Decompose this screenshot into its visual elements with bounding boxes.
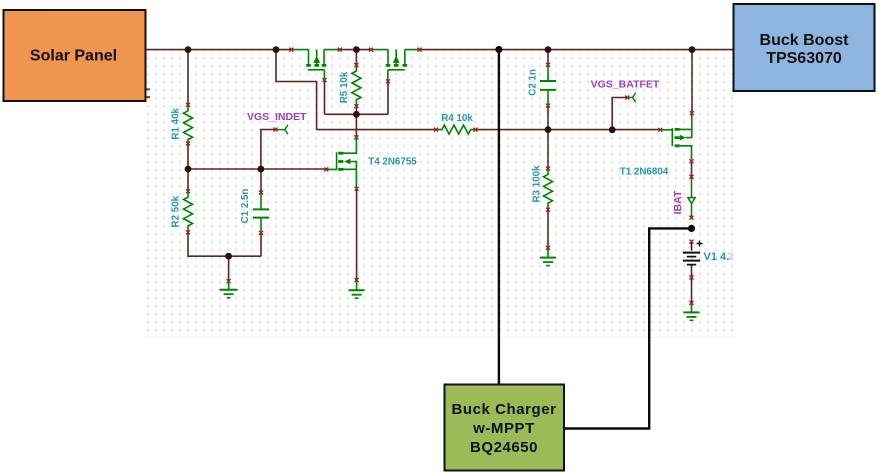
svg-text:R4 10k: R4 10k <box>441 113 473 124</box>
svg-text:T4 2N6755: T4 2N6755 <box>368 156 417 167</box>
resistor R4 10k <box>436 125 475 134</box>
wire: R4 net horizontal <box>317 129 661 131</box>
wire: ground stub below R2/C1 <box>228 256 230 281</box>
wire: R5 bottom to gate node <box>355 106 357 114</box>
svg-text:VGS_INDET: VGS_INDET <box>247 111 307 123</box>
transistor PMOS left (pass FET 1) <box>291 50 340 80</box>
wire: T1 source to IBAT meter <box>691 161 693 177</box>
wire: thick black battery to buck charger <box>565 228 692 428</box>
wire: VGS_INDET tap <box>261 130 276 170</box>
svg-text:TPS63070: TPS63070 <box>766 50 842 67</box>
transistor T1 2N6804 <box>660 113 692 160</box>
wire: R3 bottom to ground <box>547 210 549 248</box>
wire: gate bus to T4 drain <box>355 114 357 137</box>
wire: C1 bottom <box>260 233 262 256</box>
wire: VGS_BATFET tap <box>612 98 627 130</box>
box: Buck Boost TPS63070 <box>734 4 875 91</box>
svg-text:VGS_BATFET: VGS_BATFET <box>591 79 660 91</box>
voltage pin VGS_BATFET <box>627 93 636 103</box>
voltage pin VGS_INDET <box>276 125 288 135</box>
wire: battery top lead <box>691 242 693 251</box>
wire: staircase from rail to R4 net <box>276 50 317 130</box>
junction dots (maroon) <box>185 46 696 259</box>
box: Buck Charger w-MPPT BQ24650 <box>445 385 565 471</box>
wire: main solar rail <box>146 49 733 51</box>
svg-text:R1 40k: R1 40k <box>171 107 182 139</box>
pin marks (red X) <box>186 48 694 305</box>
wire: R1 top <box>187 50 189 105</box>
ground below battery V1 <box>684 303 700 320</box>
resistor R5 10k <box>352 65 361 106</box>
wire: T4 source to ground <box>356 189 358 280</box>
box: Solar Panel <box>4 10 146 101</box>
battery V1 <box>683 241 703 267</box>
resistor R3 100k <box>544 169 553 210</box>
svg-text:C1 2.5n: C1 2.5n <box>240 189 251 224</box>
svg-text:2: 2 <box>728 251 734 263</box>
wire: R5 top stub <box>355 50 357 66</box>
svg-text:V1 4.: V1 4. <box>704 251 730 263</box>
junction dots (black wires) <box>495 46 695 232</box>
transistor PMOS right (pass FET 2) <box>371 50 420 82</box>
wire: divider node horizontal (T4 gate net) <box>188 168 326 170</box>
svg-text:Solar Panel: Solar Panel <box>30 48 117 65</box>
svg-text:w-MPPT: w-MPPT <box>472 420 535 437</box>
wire: C2 top stub <box>547 50 549 65</box>
svg-text:R3 100k: R3 100k <box>532 165 543 203</box>
transistor T4 2N6755 <box>326 137 356 188</box>
svg-text:IBAT: IBAT <box>672 190 684 214</box>
wire: pass-fet gate bus <box>325 80 389 114</box>
solar panel unused pins <box>147 89 151 97</box>
wire: R2 top <box>187 169 189 191</box>
current arrow IBAT <box>688 177 695 218</box>
svg-text:Buck Boost: Buck Boost <box>760 32 850 49</box>
svg-text:BQ24650: BQ24650 <box>470 439 538 456</box>
wire: C1 top <box>260 169 262 193</box>
wire: R1 bottom to divider node <box>187 143 189 169</box>
svg-text:Buck Charger: Buck Charger <box>452 401 557 418</box>
svg-text:C2 1n: C2 1n <box>527 69 538 96</box>
svg-text:T1 2N6804: T1 2N6804 <box>620 167 669 178</box>
resistor R2 50k <box>184 191 193 232</box>
ground below T4 <box>349 280 365 298</box>
capacitor C2 1n <box>540 65 556 106</box>
wire: T1 drain to rail <box>691 50 693 114</box>
capacitor C1 2.5n <box>253 193 269 233</box>
wire: C2 bottom stub <box>547 106 549 130</box>
svg-text:R2 50k: R2 50k <box>171 195 182 227</box>
ground below R3 <box>540 248 556 266</box>
resistor R1 40k <box>184 105 193 143</box>
wire: R3 top <box>547 130 549 169</box>
wire: thick black rail to buck charger <box>498 50 500 384</box>
svg-text:R5 10k: R5 10k <box>339 71 350 103</box>
wire: battery bottom to ground <box>691 266 693 303</box>
wire: R2 bottom to ground rail <box>188 232 261 256</box>
ground below R2/C1 <box>220 281 238 298</box>
